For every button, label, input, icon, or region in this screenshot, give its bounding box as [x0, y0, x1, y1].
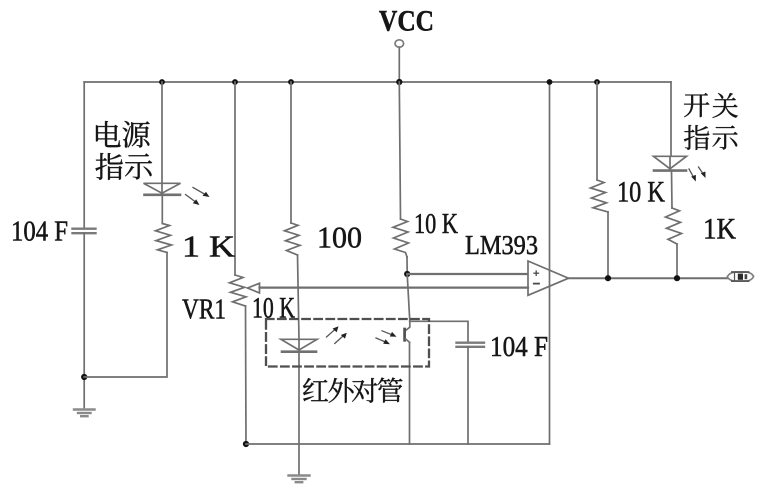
svg-text:LM393: LM393 [465, 230, 538, 260]
resistor R5 1K (right) [666, 208, 682, 244]
wire 10K right top [596, 82, 598, 180]
wire LED D1 to R1 [161, 195, 163, 224]
LED D2 emission arrows [327, 326, 347, 343]
wire plus input [407, 273, 528, 275]
dashed box IR pair [266, 319, 429, 367]
svg-text:1 K: 1 K [182, 229, 236, 264]
ground GND1 [74, 410, 95, 417]
node top rail dot D [547, 79, 553, 85]
svg-text:100: 100 [317, 220, 362, 255]
resistor R3 10K (middle) [393, 219, 409, 257]
node bottom rail junction [243, 441, 249, 447]
resistor R2 100 [285, 223, 301, 255]
power terminal VCC circle [395, 40, 404, 47]
svg-text:104 F: 104 F [11, 216, 68, 248]
wire bottom rail [246, 443, 550, 445]
label 开关指示 (switch indicator) [684, 93, 738, 150]
wire power-LED anode [161, 82, 163, 183]
resistor R1 1K (left) [156, 224, 172, 253]
transistor Q1 phototransistor [405, 321, 410, 444]
node top rail dot A (power LED branch) [159, 79, 165, 85]
node top rail dot E (10K right) [594, 79, 600, 85]
svg-text:104 F: 104 F [490, 331, 548, 363]
wire comparator output [569, 277, 728, 279]
transistor Q1 incident light arrows [376, 331, 397, 344]
label 红外对管 (IR pair) [303, 378, 403, 403]
LED D3 emission arrows [689, 167, 706, 182]
potentiometer VR1 wiper arrow [248, 283, 260, 293]
op-amp U1 LM393 body [528, 261, 569, 295]
wire VR1 bottom lead [245, 306, 248, 444]
node top rail dot B (VR1 branch) [232, 79, 238, 85]
node comparator plus input junction [404, 271, 410, 277]
svg-text:VR1: VR1 [182, 294, 226, 326]
wire 100 ohm top [290, 82, 292, 223]
LED D1 power indicator [144, 183, 181, 195]
node output junction 1 [605, 275, 611, 281]
output terminal [727, 272, 753, 281]
svg-text:10 K: 10 K [617, 176, 665, 209]
wire VCC stem [398, 47, 400, 82]
wire collector to capacitor [410, 321, 468, 342]
wire LED D3 to R5 [671, 171, 674, 208]
LED D2 infrared emitter [281, 339, 317, 351]
ground GND2 [289, 476, 310, 483]
wire R2 to IR LED [298, 255, 300, 339]
wire bottom-left jog [84, 253, 167, 378]
capacitor C2 104F plates [457, 343, 485, 347]
node top rail dot C (100 ohm branch) [288, 79, 294, 85]
node output junction 2 [674, 275, 680, 281]
svg-text:VCC: VCC [379, 5, 434, 38]
node top rail dot VCC [396, 79, 402, 85]
svg-text:10 K: 10 K [414, 208, 458, 240]
wire left rail lower [83, 233, 85, 407]
svg-text:1K: 1K [703, 213, 736, 246]
resistor R4 10K (right) [591, 180, 609, 212]
wire R4 bottom [607, 212, 609, 278]
wire left rail upper [83, 82, 85, 228]
capacitor C1 104F plates [73, 229, 96, 234]
svg-text:10 K: 10 K [252, 292, 295, 325]
LED D1 emission arrows [186, 188, 210, 206]
wire R5 bottom [676, 244, 678, 278]
op-amp U1 minus mark [534, 283, 539, 285]
label 电源指示 (power indicator) [96, 121, 153, 180]
wire node to collector [407, 274, 410, 321]
wire top rail [84, 81, 671, 83]
wire comparator power column [549, 82, 551, 444]
wire R3 bottom to node [406, 257, 408, 274]
wire IR LED cathode to ground [298, 352, 300, 474]
op-amp U1 plus mark [534, 271, 539, 275]
wire switch LED top [670, 82, 672, 156]
wire capacitor C2 to bottom rail [467, 347, 469, 444]
wire minus input from wiper [260, 286, 529, 288]
LED D3 switch indicator [654, 156, 687, 170]
node left-bottom junction [81, 374, 87, 380]
potentiometer VR1 10K body [230, 275, 247, 306]
wire VCC column [399, 82, 400, 219]
wire VR1 top [234, 82, 236, 275]
